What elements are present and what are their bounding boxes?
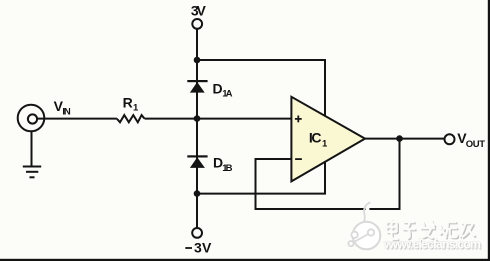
resistor R1: [117, 115, 145, 122]
diode D1B: [187, 155, 207, 168]
power terminal +3V: [192, 19, 202, 29]
svg-text:D: D: [213, 80, 223, 96]
wire: -3V rail node to op-amp V- pin: [197, 161, 325, 194]
svg-text:1: 1: [133, 103, 139, 114]
svg-text:1A: 1A: [222, 89, 232, 100]
label D1B: [213, 155, 233, 174]
pin +: non-inverting input mark: [295, 116, 302, 123]
svg-text:3V: 3V: [194, 240, 212, 256]
node A: top of D1A / supply junction: [194, 57, 201, 64]
wire: 3V rail to op-amp V+ pin: [197, 60, 325, 116]
connector J1 (input BNC): [18, 105, 45, 132]
op-amp IC1: [291, 97, 365, 182]
svg-text:1B: 1B: [222, 163, 232, 174]
svg-text:1: 1: [322, 138, 328, 149]
wire: input from connector through R1 to op-amp + input: [36, 118, 117, 120]
wire: diode branch vertical: [196, 29, 198, 228]
svg-text:IC: IC: [309, 129, 322, 145]
watermark logo (elecfans): [348, 203, 380, 250]
diode D1A: [187, 80, 207, 93]
wire: connector ground stem: [31, 131, 33, 166]
ground: [23, 167, 41, 178]
svg-text:R: R: [123, 94, 133, 110]
power terminal -3V: [192, 228, 202, 238]
svg-text:www.elecfans.com: www.elecfans.com: [383, 238, 481, 252]
label IC1: [309, 129, 328, 149]
pin -: inverting input mark: [295, 158, 302, 160]
node B: input junction: [194, 115, 201, 122]
label VOUT: [457, 130, 485, 150]
node C: bottom of D1B / supply junction: [194, 190, 201, 197]
svg-text:3V: 3V: [191, 3, 207, 19]
wire: feedback output to inverting input: [256, 139, 400, 209]
svg-text:OUT: OUT: [466, 139, 485, 150]
terminal VOUT: [445, 134, 455, 144]
label -3V: [185, 240, 212, 256]
node D: output junction: [396, 135, 403, 142]
label D1A: [213, 80, 233, 99]
wire: op-amp output to VOUT terminal: [365, 138, 445, 140]
label R1: [123, 94, 139, 113]
border bottom: [0, 259, 490, 261]
label VIN: [54, 98, 71, 118]
svg-text:IN: IN: [62, 107, 71, 118]
watermark text: Chinese glyph strokes: [386, 219, 476, 240]
border right: [488, 0, 490, 261]
